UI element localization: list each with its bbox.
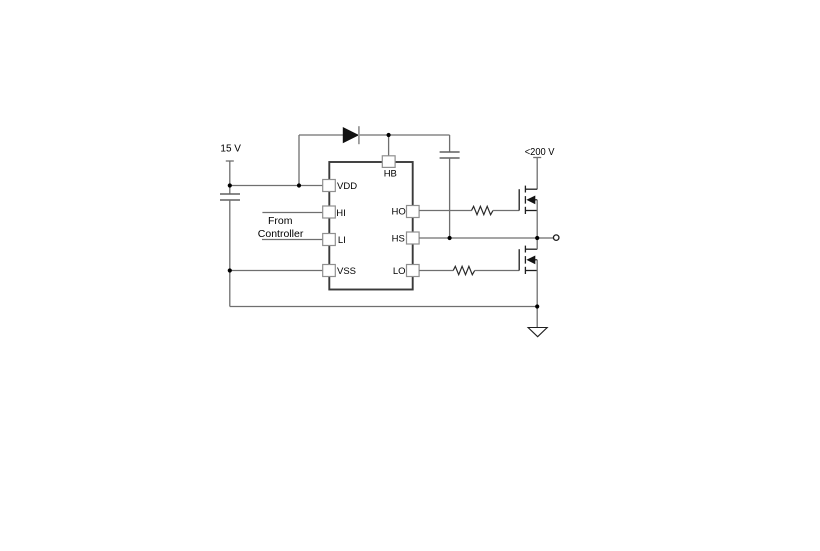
diode D1 (bootstrap diode) [343,126,359,144]
svg-text:HO: HO [392,206,406,217]
ground symbol [528,328,547,337]
pin HO box [407,206,420,218]
node: ground junction [535,304,539,308]
node: output junction [535,236,539,240]
wire: HS pin to output node [419,237,537,239]
svg-text:VDD: VDD [337,181,357,192]
capacitor C1 (15V bypass) plates [220,194,240,200]
wire: VDD rail from 15V cap to VDD pin [230,185,323,187]
capacitor C2 (bootstrap) plates [440,152,460,158]
svg-text:HS: HS [392,234,405,245]
resistor R1 (high-side gate) [472,206,494,214]
wire: HI input from controller [262,212,322,214]
transistor Q1 (high-side NMOS) [519,186,537,214]
pin LI box [323,234,336,246]
supply terminal 15V bar [226,160,234,162]
pin HB box [382,156,395,168]
pin LO box [407,265,420,277]
wire: LO to gate resistor [419,270,453,272]
svg-text:LI: LI [338,235,346,246]
wire: bootstrap cap top drop [449,135,451,152]
pin VSS box [323,265,336,277]
wire: VSS wire [230,270,323,272]
svg-text:Controller: Controller [258,228,304,240]
pin HI box [323,206,336,218]
node: VDD branch junction [297,183,301,187]
resistor R2 (low-side gate) [453,266,475,274]
wire: 15V vertical stem [229,161,231,194]
wire: R2 to Q2 gate [475,270,520,272]
node: diode cathode / HB junction [387,133,391,137]
svg-text:From: From [268,215,293,227]
svg-text:<200 V: <200 V [525,146,555,158]
wire: bootstrap cap bottom to HS node [449,158,451,238]
wire: output stub to terminal [537,237,553,239]
transistor Q2 (low-side NMOS) [519,246,537,274]
wire: HB pin drop [388,135,390,156]
node: VSS junction [228,268,232,272]
svg-text:LO: LO [393,266,406,277]
svg-text:VSS: VSS [337,266,356,277]
wire: HO to gate resistor [419,210,471,212]
svg-text:HB: HB [384,168,397,179]
wire: vertical branch from VDD wire up to bootstrap rail [298,135,300,186]
svg-text:15 V: 15 V [220,144,241,155]
wire: top bootstrap rail [299,134,450,136]
wire: LI input from controller [262,239,323,241]
wire: bottom rail [230,306,537,308]
IC U1 body [329,162,412,290]
wire: Q1 source/body down to output node [536,200,538,238]
output terminal circle [553,235,559,241]
wire: ground node to ground symbol [536,307,538,328]
wire: output node down to Q2 drain [536,238,538,249]
svg-text:HI: HI [336,208,346,219]
wire: HV rail to Q1 drain [536,158,538,190]
node: 15V / VDD junction [228,183,232,187]
wire: R1 to Q1 gate [493,210,519,212]
wire: Q2 source/body down to ground node [536,260,538,307]
pin VDD box [323,180,336,192]
pin HS box [407,232,420,244]
wire: left rail below C1 down to bottom [229,200,231,307]
node: bootstrap / HS junction [448,236,452,240]
